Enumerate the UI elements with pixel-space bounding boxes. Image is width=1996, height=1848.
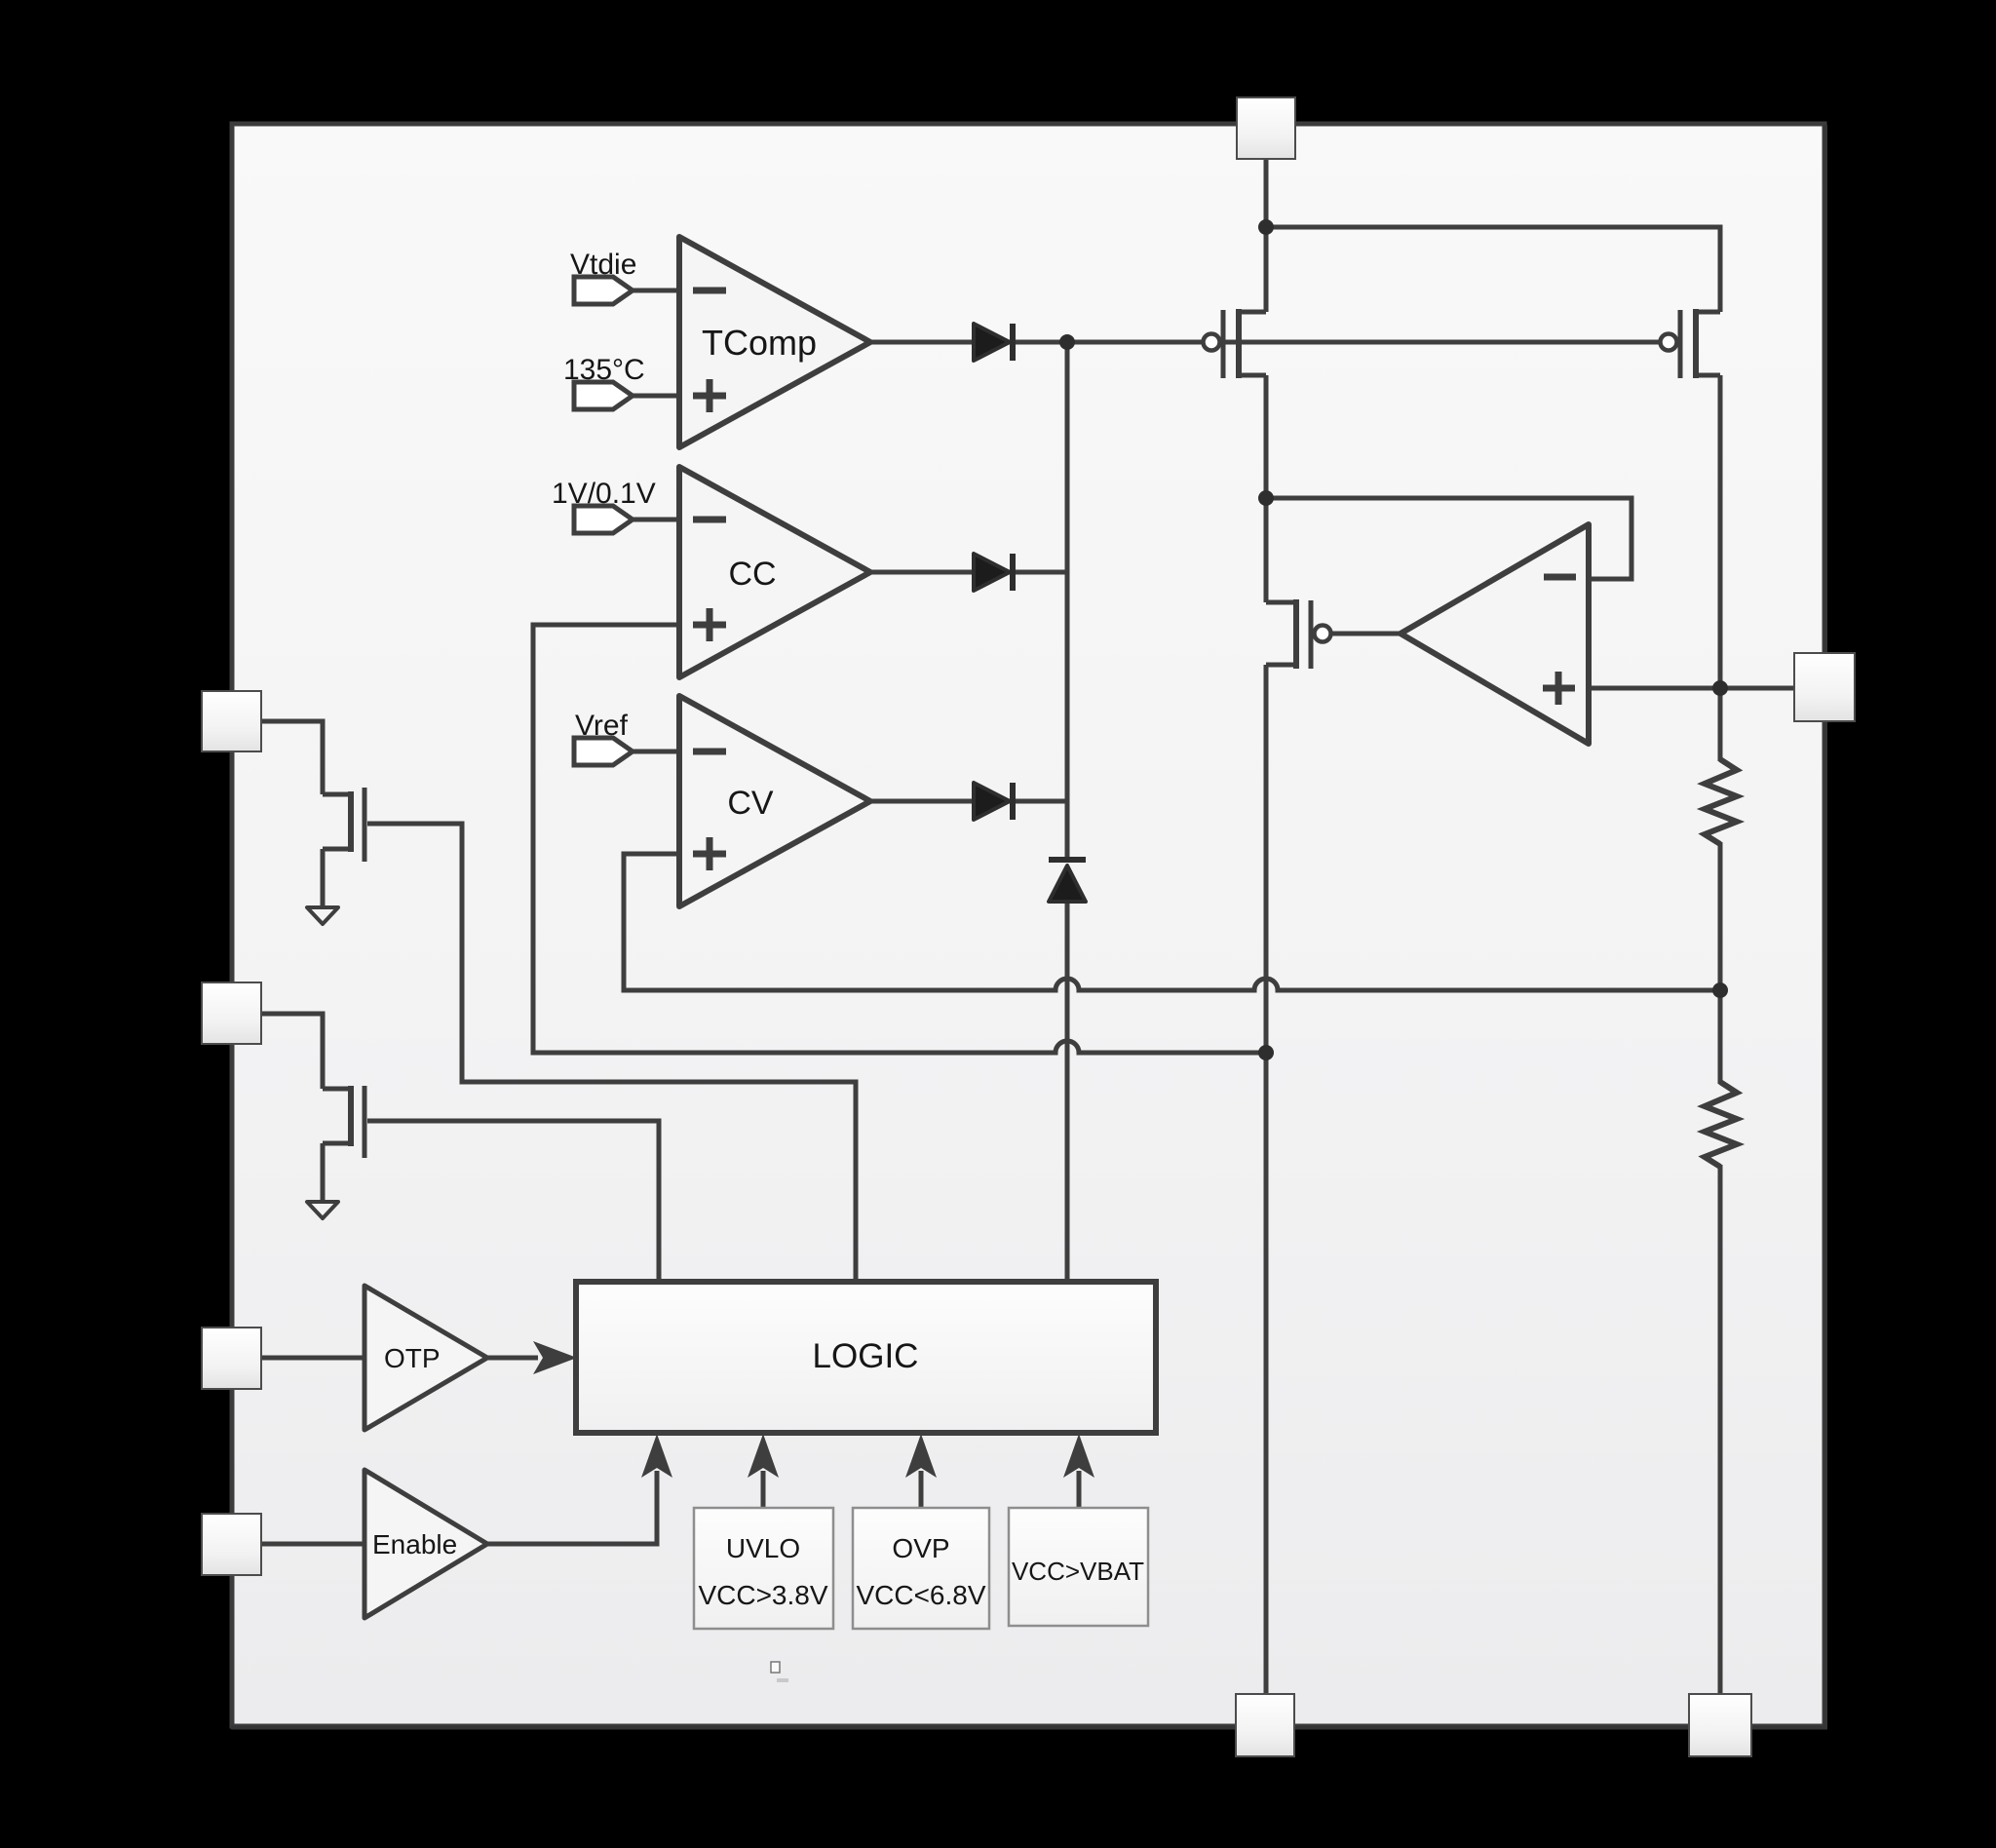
svg-text:VCC<6.8V: VCC<6.8V [856, 1580, 985, 1610]
wire: left pin 3 to OTP buffer input [259, 1356, 365, 1361]
input tag 135°C [563, 354, 645, 409]
wire: error-amp plus lead to junction C and right pin [1589, 686, 1813, 691]
wire: Vref tag lead to CV minus [633, 750, 679, 754]
svg-text:VCC>3.8V: VCC>3.8V [698, 1580, 827, 1610]
buffer Enable [365, 1470, 487, 1618]
wire: 135C tag lead to TComp plus [633, 394, 679, 399]
wire: Enable output up to LOGIC bottom arrow [487, 1471, 657, 1544]
wire: VCC&gt;VBAT arrow shaft [1077, 1471, 1082, 1508]
arrowhead VCC&gt;VBAT to LOGIC [1063, 1434, 1094, 1478]
wire: left pin 1 to M4 drain [259, 721, 323, 794]
op-amp CV (U3) [679, 696, 870, 906]
wire: left pin 4 to Enable buffer input [259, 1542, 365, 1547]
LOGIC block [576, 1282, 1156, 1433]
svg-text:Vtdie: Vtdie [570, 249, 636, 281]
wire: resistor R2 to bottom-right pin [1718, 1165, 1723, 1696]
wire: M4 source to ground [321, 849, 326, 907]
junction C (error-amp plus / right pin / R1) [1712, 680, 1728, 696]
input tag Vtdie [570, 249, 636, 304]
transistor M2 (PMOS, right of top pair) [1661, 309, 1721, 378]
comparator box VCC&gt;VBAT [1009, 1508, 1148, 1626]
wire: CV output to diode D3 and rail [870, 799, 1067, 804]
resistor R2 (lower divider) [1705, 1082, 1737, 1167]
svg-text:1V/0.1V: 1V/0.1V [552, 478, 656, 510]
input tag 1V/0.1V [552, 478, 656, 533]
pin P6 (right, output) [1794, 653, 1855, 721]
wire: TComp output to diode D1 and node [870, 340, 1067, 345]
pin P8 (bottom right) [1689, 1694, 1751, 1756]
svg-text:TComp: TComp [702, 323, 817, 363]
pin P2 (left, upper) [202, 691, 261, 751]
wire: M1 source down through junction B to M3 drain [1264, 375, 1269, 602]
wire: CC output to diode D2 and rail [870, 570, 1067, 575]
artifact mark (tiny embedded-object icon) [771, 1662, 788, 1682]
junction node (diode common / gate line) [1059, 334, 1075, 350]
wire: CV plus feedback from divider tap (hops over both rails) [624, 854, 1720, 990]
svg-text:Vref: Vref [575, 710, 629, 742]
arrowhead UVLO to LOGIC [748, 1434, 779, 1478]
wire: junction A branch right to M2 drain [1266, 227, 1720, 312]
wire: diode rail from node down to D4 [1065, 342, 1070, 858]
wire: Vtdie tag lead to TComp minus [633, 289, 679, 293]
IC boundary box [232, 124, 1824, 1726]
wire: left pin 2 to M5 drain [259, 1014, 323, 1089]
wire: top pin to junction A and M1 drain [1264, 156, 1269, 312]
wire: UVLO arrow shaft [761, 1471, 766, 1508]
transistor M3 (PMOS, driving from error amp) [1266, 599, 1331, 669]
diode D1 (TComp output) [974, 324, 1013, 361]
comparator box OVP VCC&lt;6.8V [853, 1508, 989, 1629]
op-amp U4 (error amplifier, points left) [1401, 524, 1589, 744]
ground (M4 source) [307, 907, 338, 924]
wire: resistor R1 to resistor R2 link (junction E at 1016) [1718, 842, 1723, 1084]
op-amp TComp (U1) [679, 237, 870, 447]
svg-text:LOGIC: LOGIC [813, 1337, 919, 1375]
transistor M5 (NMOS, lower left) [323, 1086, 365, 1158]
buffer OTP [365, 1286, 487, 1430]
transistor M1 (PMOS, left of top pair) [1204, 309, 1267, 378]
IC boundary shadow (right + bottom edges) [231, 125, 1825, 1728]
junction D (CC feedback / M3 source rail) [1258, 1045, 1274, 1060]
wire: OTP output to arrow [487, 1356, 538, 1361]
wire: M2 source down to junction C [1718, 375, 1723, 761]
wire: common gate line from diode node to M2 gate [1065, 340, 1676, 345]
ground (M5 source) [307, 1202, 338, 1218]
arrowhead OTP to LOGIC [533, 1341, 577, 1374]
svg-text:CV: CV [727, 785, 774, 822]
op-amp CC (U2) [679, 467, 870, 677]
wire: M5 gate route to LOGIC top [367, 1121, 659, 1282]
svg-text:CC: CC [728, 556, 776, 593]
arrowhead OVP to LOGIC [905, 1434, 937, 1478]
junction E (divider tap / CV feedback) [1712, 982, 1728, 998]
pin P3 (left, middle) [202, 982, 261, 1044]
pin P7 (bottom center) [1236, 1694, 1294, 1756]
svg-text:OVP: OVP [892, 1533, 949, 1563]
arrowhead Enable to LOGIC [641, 1434, 672, 1478]
svg-text:UVLO: UVLO [726, 1533, 800, 1563]
wire: M4 gate route to LOGIC top [367, 824, 856, 1282]
pin P4 (left, OTP input) [202, 1328, 261, 1389]
svg-text:Enable: Enable [372, 1529, 457, 1559]
wire: CC plus feedback from junction D (hop over diode rail) [533, 625, 1266, 1053]
junction A (top pin / M2 branch) [1258, 219, 1274, 235]
resistor R1 (upper divider) [1705, 759, 1737, 844]
transistor M4 (NMOS, upper left) [323, 788, 365, 862]
wire: M3 gate bubble to error-amp apex [1330, 632, 1401, 636]
diode D2 (CC output) [974, 554, 1013, 591]
wire: M3 source down to bottom-center pin (junction D at 1080) [1264, 665, 1269, 1696]
svg-text:VCC>VBAT: VCC>VBAT [1012, 1557, 1144, 1586]
junction B (M1 source / error-amp minus) [1258, 490, 1274, 506]
input tag Vref [574, 710, 633, 765]
comparator box UVLO VCC&gt;3.8V [694, 1508, 833, 1629]
wire: M5 source to ground [321, 1143, 326, 1202]
svg-text:135°C: 135°C [563, 354, 645, 386]
pin P1 (top, VCC) [1237, 97, 1295, 159]
wire: 1V/0.1V tag lead to CC minus [633, 518, 679, 522]
diode D3 (CV output) [974, 783, 1013, 820]
diode D4 (vertical, on diode rail) [1049, 860, 1086, 902]
wire: error-amp minus feedback to junction B [1266, 498, 1631, 579]
wire: OVP arrow shaft [919, 1471, 924, 1508]
pin P5 (left, Enable input) [202, 1514, 261, 1575]
wire: diode rail from D4 down into LOGIC top [1065, 902, 1070, 1282]
svg-text:OTP: OTP [384, 1343, 441, 1373]
